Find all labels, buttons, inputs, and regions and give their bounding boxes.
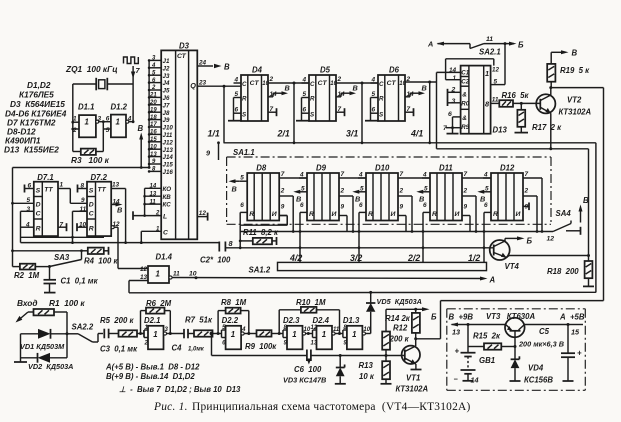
svg-text:6: 6 [448,111,452,118]
svg-text:15: 15 [571,328,580,337]
resistor R15 [468,325,517,350]
svg-text:VD4: VD4 [528,364,544,373]
svg-text:19: 19 [150,107,157,113]
svg-text:R1 100 к: R1 100 к [49,298,85,308]
gate D1.1 [71,103,101,138]
gate D14 [129,253,180,284]
svg-text:ZQ1 100 кГц: ZQ1 100 кГц [65,64,118,74]
D7.1 output 1 to D7.2 [58,182,87,204]
D7.1 pin 7 terminator [58,221,67,231]
wire SA2.1 to D13 pin5 [491,44,505,85]
svg-text:С2: С2 [461,79,469,86]
resistor R7 [185,316,222,337]
svg-text:И: И [391,211,396,218]
svg-text:11: 11 [173,271,180,278]
D3 output pin 23 wire to D4 [197,80,241,88]
svg-text:1/2: 1/2 [468,253,480,263]
D13 pin 14 input from D6 [437,67,461,149]
svg-text:Б: Б [527,237,533,246]
svg-text:В: В [224,63,230,72]
svg-text:D11: D11 [439,164,453,173]
resistor R14 [385,309,420,339]
svg-text:R: R [379,96,384,103]
svg-text:R9: R9 [461,124,469,131]
wire D5 out to D6 [336,82,378,84]
svg-text:R: R [89,226,94,233]
svg-text:23: 23 [198,80,207,87]
svg-text:VT2: VT2 [567,96,582,105]
svg-text:7: 7 [281,171,285,178]
resistor R18 [547,149,594,287]
switch SA2.1 [427,36,524,57]
svg-text:Рис. 1.: Рис. 1. [153,401,188,413]
wire Б line with R12/R14 [386,307,437,321]
svg-text:GB1: GB1 [479,356,495,365]
svg-text:3/1: 3/1 [346,129,358,139]
D7.2 pin 14 B arrow [111,198,122,214]
svg-text:2: 2 [399,188,404,195]
svg-text:2/2: 2/2 [407,253,420,263]
wire D4 out to D5 [268,82,309,84]
svg-text:КС: КС [163,202,172,209]
switch section SA1.1 dash-dot box [227,148,551,224]
svg-text:И: И [272,211,277,218]
capacitor C6 in line [294,350,322,375]
node R1/VD1 [66,332,69,335]
svg-text:2: 2 [269,76,274,83]
wire right inner vertical [595,143,597,293]
svg-text:1: 1 [292,330,296,339]
svg-text:J14: J14 [163,154,174,161]
svg-text:D1.4: D1.4 [156,253,173,262]
svg-text:D4: D4 [252,66,263,75]
svg-text:21: 21 [149,93,157,99]
diode VD2 [21,334,74,371]
svg-text:D9: D9 [316,164,327,173]
gate D2.4 [311,316,340,349]
svg-text:D2.4: D2.4 [313,316,330,325]
svg-text:D12: D12 [500,164,515,173]
svg-text:2: 2 [524,188,529,195]
figure caption [153,401,471,413]
svg-text:J1: J1 [163,58,170,65]
svg-text:D13: D13 [493,126,508,135]
svg-text:К176ЛЕ5: К176ЛЕ5 [19,90,54,100]
svg-text:C: C [89,211,94,218]
svg-text:D: D [36,202,41,209]
wire oscillator left vertical [72,84,74,152]
svg-text:C: C [36,211,41,218]
svg-text:SA4: SA4 [556,209,572,218]
svg-text:VD3 КС147В: VD3 КС147В [283,376,326,385]
svg-text:1,0мк: 1,0мк [188,347,205,353]
svg-text:6: 6 [235,107,239,114]
svg-text:С1 0,1 мк: С1 0,1 мк [61,277,99,286]
transistor VT1 [396,339,429,394]
wire D14 loop to long bottom line [129,281,596,293]
svg-text:5: 5 [106,127,110,134]
svg-text:17: 17 [150,122,157,128]
wire VT1 collector loop [414,301,603,341]
counter D5 [296,66,358,122]
svg-text:CT: CT [318,80,328,87]
svg-text:&: & [462,92,467,99]
svg-text:R: R [309,211,314,218]
svg-text:20: 20 [149,100,157,106]
svg-text:6: 6 [423,202,427,209]
resistor R19 [547,49,590,88]
wire D2.4 out [335,332,343,335]
svg-text:SA3: SA3 [54,253,70,262]
svg-text:S: S [89,188,94,195]
wire bus L1 [21,241,220,244]
D7.1 pin 4 wire [21,221,34,228]
svg-text:SA2.1: SA2.1 [479,48,501,57]
counter D3 [161,42,197,240]
D7.2 pin 10 terminator [77,221,87,231]
svg-text:J5: J5 [163,88,170,95]
counter D10 [352,164,413,233]
wire D1.3 out to VD5 [366,333,371,335]
svg-text:В: В [353,84,358,93]
svg-text:16: 16 [150,130,157,136]
svg-text:VT3 КТ630А: VT3 КТ630А [486,312,535,321]
svg-text:11: 11 [150,199,157,205]
svg-text:R11 8,2 к: R11 8,2 к [243,228,279,237]
wire crystal left [73,83,97,85]
counter D12 [477,164,538,233]
svg-text:С6 100: С6 100 [294,365,322,374]
svg-text:С5: С5 [539,327,550,336]
counter D11 [416,164,477,233]
resistor R2 [13,264,50,280]
svg-text:15: 15 [150,137,157,143]
svg-text:10: 10 [150,144,157,150]
svg-text:7: 7 [341,171,345,178]
wire D13 ground line to VT2 emitter [437,147,589,150]
svg-text:В: В [285,84,290,93]
svg-text:11: 11 [492,97,499,104]
wire D7 lower link [21,236,105,238]
svg-text:Принципиальная схема частотоме: Принципиальная схема частотомера (VT4—КТ… [192,401,471,413]
svg-text:6: 6 [240,202,244,209]
svg-text:D2.2: D2.2 [222,316,239,325]
svg-text:L: L [163,214,167,221]
resistor R9 [245,330,283,351]
diode VD1 [20,329,67,351]
resistor R1 [28,298,85,334]
svg-text:13: 13 [150,152,157,158]
svg-text:12: 12 [492,67,499,74]
svg-text:R15 2к: R15 2к [473,332,501,341]
svg-text:S: S [36,188,41,195]
svg-text:2: 2 [340,188,345,195]
svg-text:1: 1 [60,182,64,189]
svg-text:J7: J7 [163,102,170,109]
resistor R16 [491,91,541,107]
svg-text:1: 1 [352,330,356,339]
svg-text:J13: J13 [163,147,174,154]
D13 pins 6,7 to ground [443,111,461,134]
wire VT4 emitter to R18 [509,254,590,257]
svg-text:200 к: 200 к [389,335,410,344]
svg-text:13: 13 [150,191,157,197]
svg-text:R14 2к: R14 2к [385,314,411,323]
svg-text:−: − [454,375,459,384]
svg-text:КО: КО [163,186,172,193]
wire D11.7 to D12.4 [462,177,491,179]
svg-text:2: 2 [155,211,160,217]
svg-text:1: 1 [322,330,326,339]
svg-text:1: 1 [231,330,235,339]
D7.2 output 13 wire down to C2 line [111,182,127,245]
svg-text:&: & [462,115,467,122]
svg-text:C4: C4 [172,344,183,353]
svg-text:С1: С1 [461,70,469,77]
D3 pin L(2) with terminator [133,211,167,221]
svg-text:6: 6 [484,202,488,209]
svg-text:18: 18 [150,115,157,121]
svg-text:7: 7 [525,171,529,178]
resistor R3 [71,149,110,165]
svg-text:R: R [432,211,437,218]
capacitor C5 [518,325,582,382]
svg-text:⊥ - Выв 7 D1,D2 ; Выв 10 D: ⊥ - Выв 7 D1,D2 ; Выв 10 D13 [119,385,241,394]
resistor R10 feedback [279,298,339,334]
svg-text:2/1: 2/1 [277,129,290,139]
switch section SA1.2 gang bar [249,262,487,274]
wire reset bus [240,230,553,233]
svg-text:В: В [138,124,144,133]
battery GB1 [454,347,496,385]
D3 pin 12 terminator [197,210,207,220]
wire D14 output A line [172,271,495,285]
svg-text:R: R [368,211,373,218]
svg-text:1: 1 [116,118,120,127]
wire pin 9 stub [206,141,220,160]
wire collector to right edge [551,88,604,301]
D7.1 pin 6 terminator [25,183,34,193]
crystal ZQ1 [96,78,107,91]
wire left edge vertical bus [12,168,14,267]
resistor R8 feedback [218,298,249,334]
D3 pins KO KB KC [143,184,171,217]
svg-text:D3 К564ИЕ15: D3 К564ИЕ15 [10,99,65,109]
svg-text:J3: J3 [163,73,170,80]
resistor R17 [515,103,563,132]
svg-text:КТ3102А: КТ3102А [559,108,592,117]
svg-text:9: 9 [341,204,345,211]
resistor R13 [359,356,392,384]
gate D1.3 [343,316,371,349]
svg-text:13: 13 [452,328,460,337]
svg-text:J9: J9 [163,117,170,124]
svg-text:А: А [489,276,496,285]
wire base bus [212,334,405,358]
capacitor C3 [100,329,138,354]
node D2.2 input [217,332,220,335]
svg-text:D8: D8 [256,164,267,173]
svg-text:13: 13 [112,182,120,189]
svg-text:D10: D10 [375,164,390,173]
svg-text:D7.1: D7.1 [37,173,53,182]
wire top-left horizontal bus [13,167,150,169]
svg-text:C: C [310,81,315,88]
wire D10.7 to D11.4 [398,177,430,179]
wire D2.3 out [306,332,313,335]
svg-text:D1,D2: D1,D2 [27,80,51,90]
switch SA4 [547,196,590,243]
svg-text:R2 1М: R2 1М [14,271,40,280]
svg-text:3/2: 3/2 [350,253,362,263]
svg-text:3: 3 [452,98,456,105]
test point arrow pin 7 [131,66,141,79]
svg-text:10: 10 [189,271,197,278]
wire D2.2 out [244,332,256,335]
parts list text block [4,80,67,155]
resistor R6 feedback [141,299,172,334]
svg-text:7: 7 [464,171,468,178]
resistor R12 [382,309,409,355]
svg-text:D13 К155ИЕ2: D13 К155ИЕ2 [4,145,59,155]
svg-text:SA2.2: SA2.2 [72,323,94,332]
svg-text:D7.2: D7.2 [91,173,108,182]
wire gating bus to VT4 base [225,247,493,249]
svg-text:J10: J10 [163,125,174,132]
node D2.1 input [139,332,142,335]
wire R4 branch bus L3 [11,249,83,252]
svg-text:6: 6 [359,202,363,209]
resistor R5 [100,316,144,337]
capacitor C2 [200,239,234,265]
svg-text:А: А [427,40,433,49]
svg-text:11: 11 [486,36,493,43]
svg-text:4: 4 [151,63,156,69]
svg-text:R: R [242,96,247,103]
wire 2/1 drop [293,83,295,143]
D13 pins 2,3 terminator [448,87,461,107]
transistor VT3 [505,318,568,347]
svg-text:9: 9 [400,204,404,211]
node VT2 collector [549,86,552,89]
svg-text:4: 4 [241,327,246,333]
svg-text:VT4: VT4 [505,262,520,271]
node B supply arrow [138,124,144,169]
svg-text:12: 12 [140,266,148,273]
svg-text:R12: R12 [393,324,408,333]
svg-text:D1.2: D1.2 [111,103,128,112]
svg-text:J16: J16 [163,169,174,176]
D3 output pin 24 to B [197,60,230,72]
svg-text:7: 7 [400,171,404,178]
counter D4 [228,66,290,122]
svg-text:R6 2М: R6 2М [146,299,172,308]
svg-text:J6: J6 [163,95,170,102]
svg-text:И: И [332,211,337,218]
zener VD4 [510,347,554,385]
ground under VD pair [14,361,27,363]
svg-text:Вход: Вход [17,298,38,308]
svg-text:14: 14 [471,376,479,385]
svg-text:D6: D6 [389,66,400,75]
svg-text:D1.1: D1.1 [78,103,94,112]
svg-text:+: + [455,347,460,356]
D13 pin 12 feedback loop [446,59,500,82]
notes text [105,363,241,395]
svg-text:TT: TT [98,187,107,194]
svg-text:1: 1 [453,75,457,82]
power section dash-dot box [447,309,586,391]
input terminal Вход [16,298,38,323]
svg-text:А +5В: А +5В [559,313,585,322]
svg-text:4/1: 4/1 [410,129,423,139]
svg-text:2: 2 [144,341,149,347]
svg-text:Б: Б [431,313,437,322]
resistor R4 [82,247,119,266]
D3 pin C(1) [140,227,168,244]
svg-text:VT1: VT1 [406,374,420,383]
svg-text:2: 2 [337,76,342,83]
svg-text:J11: J11 [163,132,173,139]
svg-text:R9 100к: R9 100к [245,342,277,351]
svg-text:1: 1 [153,330,157,339]
svg-text:R: R [249,211,254,218]
wire 3/1 drop [361,83,363,143]
svg-text:J4: J4 [163,80,170,87]
wire D9.7 to D10.4 [339,177,366,179]
resistor R11 [239,225,279,249]
counter D6 [365,66,427,122]
svg-text:VD5 КД503А: VD5 КД503А [377,297,422,306]
svg-text:R3 100 к: R3 100 к [71,155,110,165]
capacitor C4 [172,329,205,353]
gate D2.1 [144,316,169,349]
svg-text:6: 6 [106,116,110,123]
svg-text:СТ: СТ [177,53,187,60]
svg-text:Q: Q [190,81,196,90]
svg-text:D3: D3 [179,42,190,51]
svg-text:10 к: 10 к [359,372,375,381]
svg-text:R4 100 к: R4 100 к [84,257,118,266]
svg-text:R8 1М: R8 1М [221,298,247,307]
wire D8.7 to D9.4 [279,177,307,179]
wire 4/1 drop [429,82,431,143]
wire 1/1 drop from pin 23 [223,86,225,143]
svg-text:200 мк×6,3 В: 200 мк×6,3 В [518,340,564,349]
D7.1 pin 3 wire [21,206,34,243]
svg-text:В +9В: В +9В [449,313,474,322]
D7.2 pin 8 terminator [78,183,88,193]
svg-text:SA1.2: SA1.2 [249,266,271,275]
svg-text:J8: J8 [163,110,170,117]
svg-text:R5 200 к: R5 200 к [100,316,134,325]
svg-text:6: 6 [300,202,304,209]
wire D1.1 out to D1.2 [99,121,111,123]
diode VD5 [366,291,422,334]
D3 input pins J1-J16 with bus [148,56,174,176]
svg-text:VD2 КД503А: VD2 КД503А [28,362,73,371]
svg-text:9: 9 [81,197,85,204]
svg-text:13: 13 [311,341,318,347]
svg-text:В: В [232,185,237,194]
svg-text:R10 1М: R10 1М [296,298,326,307]
D7.2 output 12 to D14 [111,221,148,269]
wire D2.1 out [167,332,184,335]
D7.2 pin 11 wire [71,206,87,244]
svg-text:R19 5 к: R19 5 к [560,66,590,75]
svg-text:R: R [310,96,315,103]
D7.1 pin 5 wire from bus [11,197,34,205]
